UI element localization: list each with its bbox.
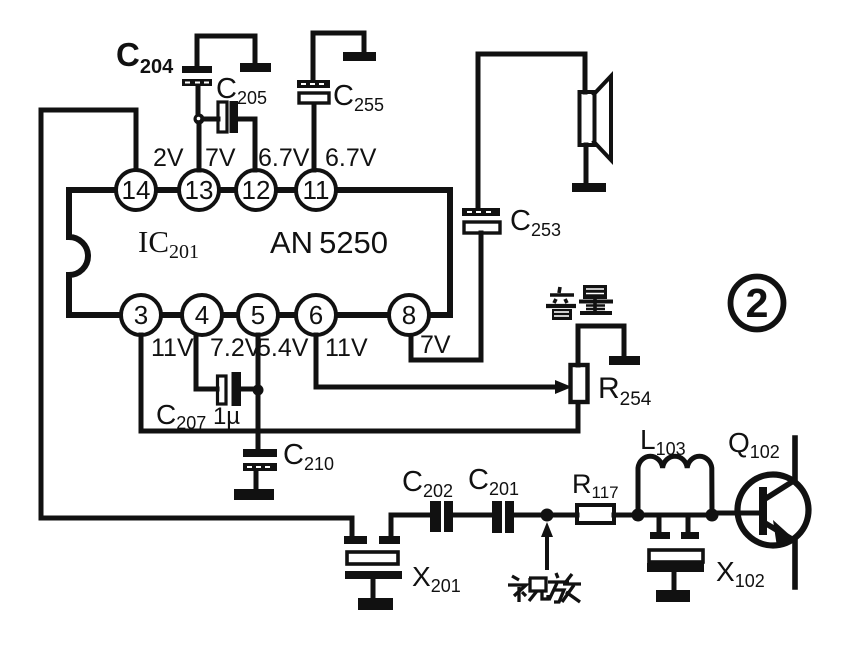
svg-text:R117: R117	[572, 469, 619, 502]
svg-text:L103: L103	[640, 424, 686, 459]
crystal X102 leads	[650, 517, 699, 539]
svg-text:11V: 11V	[151, 334, 194, 362]
svg-text:7V: 7V	[420, 331, 451, 359]
svg-text:IC201: IC201	[138, 224, 199, 263]
svg-text:6.7V: 6.7V	[325, 144, 377, 172]
ground X102	[656, 590, 690, 602]
svg-text:C255: C255	[333, 80, 384, 115]
wire pin11 stem	[312, 104, 317, 170]
wire node to node under L103	[638, 513, 712, 518]
wire R117 to L103 node	[614, 513, 638, 518]
svg-text:2V: 2V	[153, 144, 184, 172]
wire pin4 lead to C207	[196, 335, 217, 389]
ground plate of C255 bracket	[343, 52, 376, 61]
svg-text:C205: C205	[216, 73, 267, 108]
pin 11	[296, 170, 336, 210]
wire node to Q102 base	[712, 511, 758, 516]
wire C255 top bracket	[313, 33, 364, 78]
svg-text:AN5250: AN5250	[270, 225, 388, 260]
capacitor C201	[492, 501, 514, 533]
arrow 视放 input	[541, 522, 553, 568]
svg-text:5.4V: 5.4V	[257, 334, 309, 362]
wire pin6 to R254 wiper	[316, 335, 555, 387]
node junction L103 left	[632, 509, 645, 522]
svg-text:C253: C253	[510, 205, 561, 240]
capacitor C202	[430, 501, 453, 532]
wire pin5 lead down through junction to C210	[256, 335, 261, 449]
capacitor C204	[182, 66, 212, 86]
svg-text:11: 11	[303, 175, 330, 205]
ground C210	[234, 489, 274, 500]
svg-text:C207 1µ: C207 1µ	[156, 399, 240, 433]
wire C202 to C201	[453, 513, 492, 518]
capacitor C205	[204, 101, 255, 170]
svg-text:2: 2	[746, 280, 769, 326]
svg-text:6: 6	[309, 300, 323, 330]
svg-text:C204: C204	[116, 36, 174, 78]
svg-text:X102: X102	[716, 556, 765, 591]
ground speaker	[572, 183, 606, 192]
wire speaker top loop	[478, 54, 585, 207]
inductor L103	[638, 456, 712, 513]
svg-text:12: 12	[242, 175, 271, 205]
node junction C207/pin5	[253, 385, 264, 396]
wire C253 down to pin8 L	[411, 233, 481, 360]
ground plate of R254 bracket	[609, 356, 640, 365]
capacitor C255	[297, 80, 330, 103]
svg-text:11V: 11V	[325, 334, 368, 362]
pin 14	[116, 170, 156, 210]
wire C204 top bracket	[197, 36, 255, 64]
svg-text:X201: X201	[412, 561, 461, 596]
wire C201 to R117	[514, 513, 577, 518]
label 视放 (video amp) hand-drawn strokes	[508, 573, 581, 602]
svg-text:6.7V: 6.7V	[258, 144, 310, 172]
wire bottom rail X201 left lead	[350, 518, 355, 534]
svg-text:7.2V: 7.2V	[210, 334, 262, 362]
wire junction up to C204	[196, 88, 201, 114]
svg-text:7V: 7V	[205, 144, 236, 172]
wire outer loop from pin14 to bottom rail	[41, 110, 352, 518]
arrowhead wiper	[555, 380, 572, 394]
wire R254 top bracket	[578, 326, 624, 365]
node junction L103 right	[706, 509, 719, 522]
pin 13	[179, 170, 219, 210]
svg-text:C202: C202	[402, 466, 453, 501]
node junction 视放 tap	[541, 509, 554, 522]
wire X201 to C202	[391, 513, 430, 518]
svg-text:3: 3	[134, 300, 148, 330]
wire pin13 stem	[197, 124, 202, 170]
pin 8	[389, 295, 429, 335]
svg-text:4: 4	[195, 300, 209, 330]
svg-text:Q102: Q102	[728, 427, 780, 462]
wire pin3 lead to R254 bottom	[141, 335, 578, 431]
capacitor C207	[218, 372, 255, 406]
label 音量 (volume) hand-drawn strokes	[546, 285, 613, 320]
figure number 2 badge	[731, 277, 784, 330]
crystal X102 body	[647, 550, 704, 589]
svg-text:R254: R254	[598, 372, 652, 410]
pin 6	[296, 295, 336, 335]
svg-text:8: 8	[402, 300, 416, 330]
node junction at pin13/C204/C205	[194, 114, 205, 125]
svg-text:14: 14	[122, 175, 151, 205]
speaker LS	[580, 76, 612, 182]
pin 3	[121, 295, 161, 335]
ground X201	[358, 598, 393, 610]
svg-text:5: 5	[251, 300, 265, 330]
capacitor C253	[462, 208, 500, 233]
capacitor C210	[243, 449, 277, 489]
IC U=IC201 AN5250 body	[69, 190, 450, 315]
ground plate of C204 bracket	[240, 63, 271, 72]
svg-text:C201: C201	[468, 464, 519, 499]
transistor Q102	[738, 438, 809, 587]
pin 5	[238, 295, 278, 335]
potentiometer R254	[571, 365, 588, 402]
pin 12	[236, 170, 276, 210]
pin 4	[182, 295, 222, 335]
resistor R117	[577, 505, 614, 523]
svg-text:13: 13	[185, 175, 214, 205]
crystal X201	[344, 515, 402, 597]
svg-text:C210: C210	[283, 439, 334, 474]
